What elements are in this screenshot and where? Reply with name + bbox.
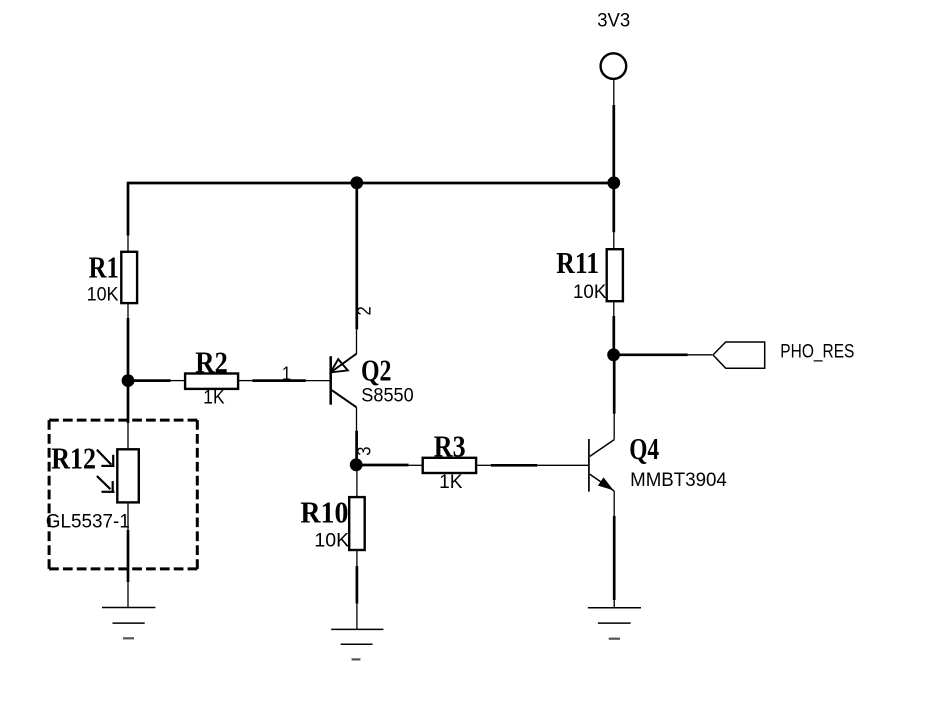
svg-text:3V3: 3V3 (597, 10, 630, 32)
svg-text:R12: R12 (51, 442, 96, 477)
svg-text:R10: R10 (300, 496, 348, 530)
svg-text:PHO_RES: PHO_RES (780, 340, 854, 363)
svg-text:1: 1 (282, 363, 291, 385)
svg-text:10K: 10K (573, 282, 607, 303)
svg-text:2: 2 (353, 306, 375, 315)
svg-text:GL5537-1: GL5537-1 (46, 511, 130, 532)
svg-text:R2: R2 (195, 346, 228, 380)
svg-text:Q2: Q2 (361, 352, 391, 387)
svg-text:S8550: S8550 (361, 384, 413, 406)
svg-text:10K: 10K (314, 530, 349, 552)
svg-text:Q4: Q4 (629, 432, 659, 466)
svg-text:R1: R1 (89, 251, 119, 285)
svg-text:3: 3 (353, 446, 375, 455)
svg-text:1K: 1K (203, 385, 225, 407)
svg-text:R3: R3 (434, 429, 466, 464)
svg-text:10K: 10K (87, 283, 119, 305)
svg-text:R11: R11 (556, 247, 599, 281)
svg-text:MMBT3904: MMBT3904 (630, 470, 727, 491)
svg-text:1K: 1K (439, 472, 462, 493)
